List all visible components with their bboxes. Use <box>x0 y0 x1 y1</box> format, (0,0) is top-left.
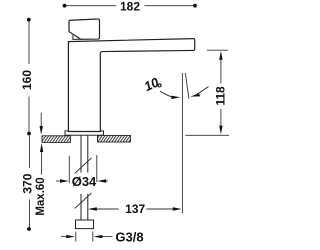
faucet body and spout outline <box>68 39 194 132</box>
dim 370 label <box>21 173 35 193</box>
svg-text:Ø34: Ø34 <box>72 174 97 189</box>
dim 182 left dot <box>63 4 67 8</box>
dim 160 bottom dot <box>27 132 31 136</box>
dim 370 line upper segment <box>29 136 31 169</box>
spout outlet axis extension line <box>181 73 183 213</box>
svg-text:182: 182 <box>120 0 140 14</box>
dim 160 line upper segment <box>28 20 30 64</box>
dim O34 right extension line <box>96 155 98 182</box>
dim 118 label <box>214 86 228 106</box>
svg-text:370: 370 <box>21 173 35 193</box>
dim 118 top extension tick <box>207 49 228 51</box>
10 deg left leader arrow <box>160 91 180 99</box>
countertop left hatched section <box>42 136 70 143</box>
dim 370 bottom dot <box>27 227 31 231</box>
hose end fitting G3/8 <box>76 220 94 229</box>
dim 160 top dot <box>27 18 31 22</box>
dim 182 line right segment <box>144 5 195 7</box>
dim G3/8 right arrow <box>94 235 113 238</box>
dim Max.60 label <box>35 177 47 215</box>
dim Max.60 upper arrow <box>40 113 43 135</box>
dim G3/8 right extension tick <box>92 232 94 242</box>
dim 182 right dot <box>193 4 197 8</box>
dim 137 line left segment with left arrow <box>88 207 119 210</box>
pipe break line lower <box>75 193 92 209</box>
svg-text:G3/8: G3/8 <box>115 229 143 244</box>
svg-text:160: 160 <box>20 70 34 90</box>
dim 137 line right segment with right arrow <box>146 207 181 210</box>
dim 118 bottom reference line <box>185 134 229 136</box>
dim 118 line upper segment with up arrow <box>219 51 222 84</box>
dim O34 left extension line <box>68 156 70 183</box>
dim 160 label <box>20 70 34 90</box>
pipe break line upper <box>75 158 92 174</box>
dim G3/8 left arrow <box>61 235 75 238</box>
dim O34 right arrow <box>97 179 108 182</box>
svg-text:Max.60: Max.60 <box>35 177 47 215</box>
dim 160 line lower segment <box>28 97 30 134</box>
base flange <box>65 131 104 135</box>
dim O34 left arrow <box>56 179 69 182</box>
svg-text:118: 118 <box>214 86 228 106</box>
svg-text:137: 137 <box>125 202 145 216</box>
10 deg label <box>142 74 162 94</box>
handle neck detail <box>73 35 81 39</box>
dim 370 line lower segment <box>29 200 31 230</box>
10 deg right leader arrow <box>190 87 208 97</box>
dim 182 line left segment <box>65 5 116 7</box>
supply pipe shank <box>81 136 88 221</box>
countertop right hatched section <box>98 135 131 142</box>
dim Max.60 lower arrow <box>40 143 43 174</box>
dim 118 line lower segment with down arrow <box>219 109 222 135</box>
dim G3/8 left extension tick <box>75 232 77 242</box>
spout outlet tilted line 10 deg <box>185 73 189 99</box>
handle lever <box>69 19 100 39</box>
